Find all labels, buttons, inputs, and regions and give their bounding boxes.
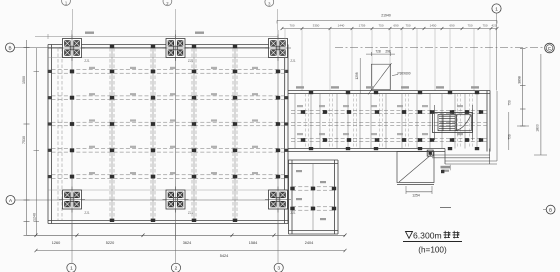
svg-text:1254: 1254	[412, 194, 420, 198]
svg-text:ZJ1: ZJ1	[188, 211, 194, 215]
svg-text:6.300m: 6.300m	[413, 231, 442, 241]
svg-text:1759: 1759	[359, 23, 366, 27]
svg-text:1240: 1240	[33, 213, 37, 221]
svg-text:ZJ1: ZJ1	[84, 59, 90, 63]
svg-text:3: 3	[277, 266, 280, 272]
svg-text:1260: 1260	[52, 241, 60, 245]
svg-text:B: B	[8, 45, 11, 50]
svg-text:3350: 3350	[313, 23, 320, 27]
svg-text:ZJ1: ZJ1	[290, 59, 296, 63]
svg-text:1: 1	[70, 266, 73, 272]
svg-text:750: 750	[482, 23, 487, 27]
svg-text:728: 728	[375, 50, 381, 54]
svg-text:P30X600: P30X600	[397, 72, 410, 76]
svg-text:21940: 21940	[381, 14, 391, 18]
svg-text:2: 2	[175, 266, 178, 272]
svg-text:420: 420	[491, 23, 496, 27]
svg-text:750: 750	[378, 23, 383, 27]
svg-text:690: 690	[449, 23, 454, 27]
svg-text:1584: 1584	[249, 241, 257, 245]
svg-text:1450: 1450	[430, 23, 437, 27]
svg-text:ZJ1: ZJ1	[84, 211, 90, 215]
svg-text:A: A	[9, 198, 13, 203]
svg-text:1298: 1298	[355, 72, 359, 79]
svg-text:750: 750	[467, 23, 472, 27]
svg-text:2404: 2404	[305, 241, 313, 245]
svg-text:3898: 3898	[518, 76, 522, 84]
svg-text:1800: 1800	[536, 124, 540, 132]
svg-text:298: 298	[385, 50, 391, 54]
svg-text:750: 750	[405, 23, 410, 27]
svg-text:5424: 5424	[220, 254, 228, 258]
svg-text:ZJ1: ZJ1	[290, 211, 296, 215]
svg-text:700: 700	[289, 23, 294, 27]
svg-text:(h=100): (h=100)	[418, 246, 447, 255]
svg-text:1500: 1500	[22, 76, 26, 84]
svg-text:750: 750	[508, 100, 512, 106]
svg-text:ZJ1: ZJ1	[188, 59, 194, 63]
svg-text:3624: 3624	[183, 241, 191, 245]
svg-text:5220: 5220	[106, 241, 114, 245]
svg-text:1440: 1440	[338, 23, 345, 27]
svg-text:C: C	[548, 46, 551, 51]
svg-text:B: B	[549, 207, 552, 212]
svg-text:750: 750	[508, 134, 512, 140]
svg-text:7530: 7530	[22, 136, 26, 144]
svg-text:1: 1	[495, 6, 498, 11]
svg-text:690: 690	[393, 23, 398, 27]
